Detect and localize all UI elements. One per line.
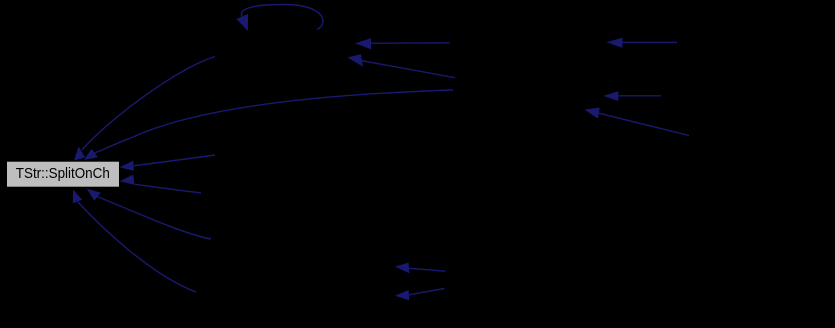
wire: curve B1 -> TStr::SplitOnCh top (steep) (82, 57, 215, 151)
arrowhead: into B1 lower right (347, 54, 363, 66)
wire: edge into B1 right (horizontal y=43) (371, 42, 450, 44)
node: hidden caller box B1 (black on black) (216, 32, 356, 58)
node: hidden caller box B2 (215, 142, 355, 168)
arrowhead: into TStr::SplitOnCh right lower (120, 175, 135, 185)
arrowhead: into B1 right (y=43) (355, 38, 371, 49)
arrowhead: bottom middle 1 (395, 263, 409, 274)
wire: curve B5 -> TStr::SplitOnCh bottom left head (78, 202, 197, 293)
arrowhead: into TStr::SplitOnCh bottom left (steep E9) (73, 190, 82, 204)
arrowhead: slanted into middle box (585, 108, 600, 119)
wire: bottom middle edge 2 (409, 289, 444, 295)
wire: right column edge into middle box (y=96) (618, 95, 661, 97)
arrowhead: into TStr::SplitOnCh top A (steep curve E4) (74, 147, 85, 161)
wire: self-loop edge on node B1 (241, 4, 322, 29)
arrowhead: into TStr::SplitOnCh bottom right (shallow E8) (87, 189, 101, 201)
wire: edge B3 -> TStr::SplitOnCh right lower (135, 184, 201, 193)
svg-text:TStr::SplitOnCh: TStr::SplitOnCh (16, 165, 110, 182)
node: hidden caller box B5 (196, 280, 336, 306)
wire: right column slanted edge into middle box (599, 113, 689, 135)
wire: curve B4 -> TStr::SplitOnCh bottom right head (97, 197, 211, 239)
arrowhead: self-loop into B1 top (236, 14, 248, 31)
node: hidden caller box B4 (211, 228, 351, 254)
arrowhead: into middle box (y=96) (603, 91, 618, 101)
wire: long curve from middle column -> TStr::SplitOnCh top (95, 90, 453, 153)
arrowhead: into middle box (y=42) (606, 38, 622, 48)
wire: edge into B1 lower right (362, 61, 455, 78)
node: TStr::SplitOnCh (current function, grey) (7, 161, 120, 187)
node: hidden caller box B3 (201, 180, 341, 206)
wire: bottom middle edge 1 (409, 268, 446, 271)
arrowhead: into TStr::SplitOnCh right upper (120, 161, 134, 171)
wire: edge B2 -> TStr::SplitOnCh right upper (134, 155, 215, 166)
arrowhead: bottom middle 2 (395, 290, 409, 300)
wire: right column edge into middle box (y=42) (622, 41, 677, 43)
arrowhead: into TStr::SplitOnCh top B (long curve E5) (84, 149, 98, 160)
